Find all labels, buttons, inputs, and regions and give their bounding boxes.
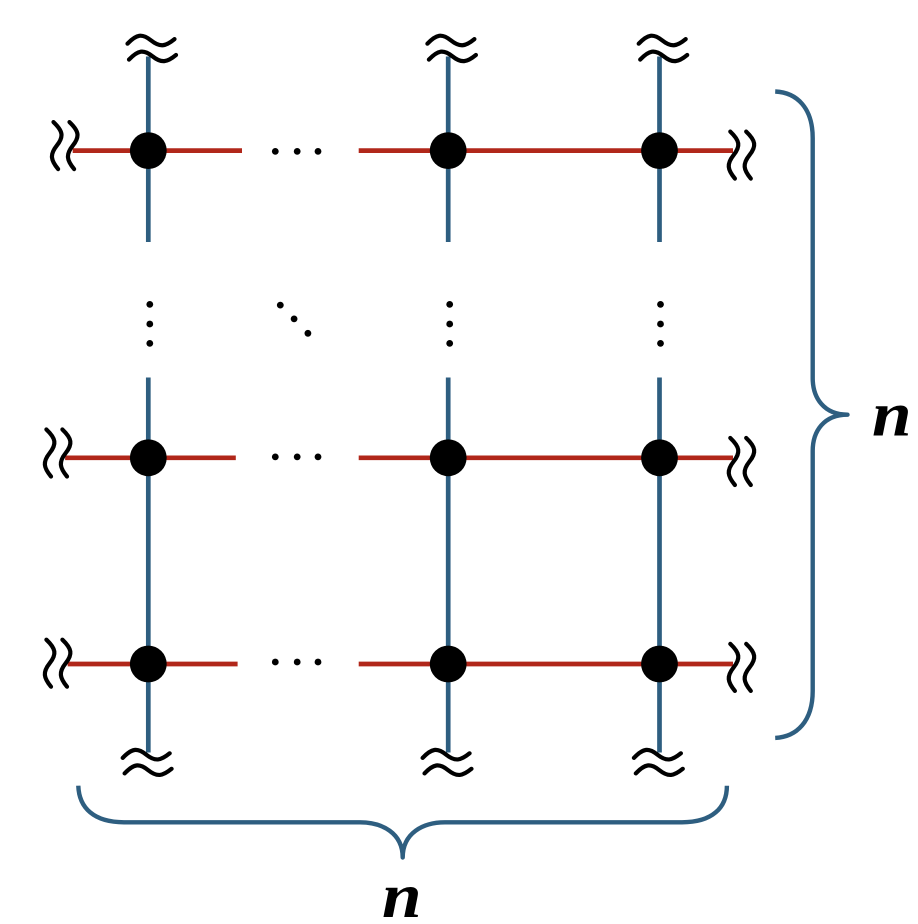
break mark: left of row 1 (double wavy)	[52, 122, 78, 169]
label: n (right brace)	[872, 379, 912, 450]
break mark: bottom of column 1 (double tilde)	[123, 750, 172, 775]
node: tensor dot row3 col2	[430, 646, 467, 683]
ellipsis: column 3 vertical dots	[657, 301, 664, 347]
wire: row 1 horizontal left segment	[73, 148, 242, 153]
break mark: left of row 3 (double wavy)	[45, 640, 71, 687]
break mark: right of row 2 (double wavy)	[729, 438, 754, 485]
wire: row 3 horizontal left segment	[68, 662, 238, 667]
break mark: bottom of column 2 (double tilde)	[423, 750, 472, 775]
wire: row 3 horizontal right segment	[359, 662, 733, 667]
node: tensor dot row1 col1	[130, 132, 167, 169]
wire: column 2 vertical lower segment	[446, 378, 451, 753]
wire: row 2 horizontal right segment	[359, 455, 733, 460]
break mark: right of row 1 (double wavy)	[729, 132, 754, 179]
break mark: top of column 2 (double tilde)	[427, 36, 476, 61]
wire: column 2 vertical upper segment	[446, 57, 451, 243]
ellipsis: row 3 horizontal dots	[272, 659, 322, 666]
break mark: left of row 2 (double wavy)	[45, 430, 71, 477]
ellipsis: row 1 horizontal dots	[272, 148, 322, 155]
break mark: top of column 3 (double tilde)	[639, 36, 688, 61]
node: tensor dot row1 col3	[641, 132, 678, 169]
node: tensor dot row2 col1	[130, 439, 167, 476]
ellipsis: column 1 vertical dots	[146, 301, 153, 347]
svg-text:n: n	[382, 860, 422, 924]
label: n (bottom brace)	[382, 860, 422, 924]
node: tensor dot row3 col1	[130, 646, 167, 683]
node: tensor dot row2 col2	[430, 439, 467, 476]
ellipsis: row 2 horizontal dots	[272, 454, 322, 461]
wire: row 2 horizontal left segment	[65, 455, 236, 460]
node: tensor dot row1 col2	[430, 132, 467, 169]
brace: bottom horizontal curly brace	[78, 786, 727, 858]
wire: column 1 vertical lower segment	[146, 378, 151, 753]
wire: column 3 vertical upper segment	[657, 57, 662, 243]
wire: column 1 vertical upper segment	[146, 57, 151, 243]
ellipsis: diagonal dots	[277, 302, 311, 337]
brace: right vertical curly brace	[775, 92, 847, 738]
break mark: bottom of column 3 (double tilde)	[634, 750, 683, 775]
svg-text:n: n	[872, 379, 912, 450]
ellipsis: column 2 vertical dots	[446, 301, 453, 347]
break mark: right of row 3 (double wavy)	[729, 644, 754, 691]
wire: column 3 vertical lower segment	[657, 378, 662, 753]
node: tensor dot row3 col3	[641, 646, 678, 683]
break mark: top of column 1 (double tilde)	[128, 36, 177, 61]
wire: row 1 horizontal right segment	[359, 148, 733, 153]
node: tensor dot row2 col3	[641, 439, 678, 476]
